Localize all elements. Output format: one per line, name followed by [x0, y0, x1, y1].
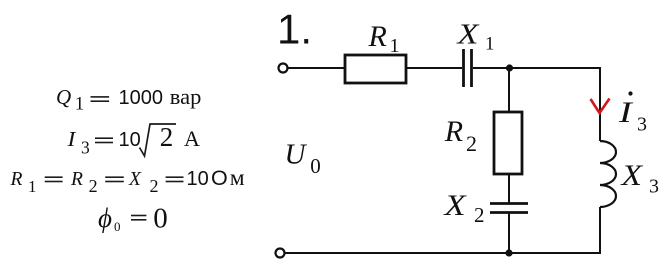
svg-text:X: X — [442, 188, 467, 221]
svg-text:1.: 1. — [277, 6, 312, 53]
given data line R1 = R2 = X2 = 10 Om — [10, 165, 245, 196]
radical sign of sqrt(2) — [140, 124, 177, 156]
svg-text:10: 10 — [187, 168, 209, 190]
svg-text:X: X — [128, 169, 142, 190]
svg-text:1: 1 — [28, 177, 37, 196]
svg-text:I: I — [66, 127, 77, 151]
svg-text:R: R — [10, 169, 23, 190]
svg-text:U: U — [285, 139, 308, 171]
svg-text:3: 3 — [637, 114, 647, 136]
current arrow I3 — [591, 99, 610, 114]
wire from R2 to X2 — [508, 174, 510, 203]
given data line phi0 = 0 — [98, 203, 168, 235]
svg-text:I: I — [618, 96, 634, 129]
svg-text:А: А — [184, 126, 200, 151]
given data line Q1 = 1000 var — [56, 84, 201, 115]
terminal bottom-left — [276, 249, 285, 258]
svg-text:0: 0 — [153, 203, 168, 235]
wire from X1 to top-right corner then down — [473, 68, 600, 141]
svg-text:10: 10 — [119, 129, 141, 151]
inductor X3 — [600, 141, 616, 207]
svg-text:X: X — [455, 18, 480, 50]
resistor R1 — [345, 55, 406, 83]
svg-text:R: R — [368, 20, 387, 53]
svg-text:2: 2 — [466, 131, 477, 156]
wire from X3 to bottom wire — [599, 207, 601, 252]
svg-text:вар: вар — [170, 84, 202, 109]
svg-text:2: 2 — [150, 176, 159, 196]
terminal top-left — [279, 64, 288, 73]
given data line I3 = 10*sqrt(2) A — [66, 122, 200, 158]
svg-text:1: 1 — [485, 34, 495, 55]
svg-text:3: 3 — [649, 176, 659, 198]
junction dot bottom — [505, 249, 512, 256]
svg-text:3: 3 — [81, 138, 90, 158]
svg-text:1: 1 — [75, 94, 85, 115]
svg-text:ϕ: ϕ — [98, 203, 112, 233]
wire middle branch from node A to R2 — [508, 68, 510, 112]
wire from X2 to bottom junction — [508, 213, 510, 253]
svg-text:м: м — [230, 165, 245, 191]
svg-text:X: X — [619, 159, 643, 192]
svg-text:2: 2 — [160, 122, 174, 152]
svg-text:2: 2 — [474, 203, 485, 227]
node A junction dot — [506, 64, 513, 71]
svg-text:Q: Q — [56, 85, 71, 109]
svg-text:2: 2 — [89, 176, 98, 196]
svg-text:0: 0 — [310, 154, 321, 178]
capacitor X2 — [490, 202, 528, 205]
svg-text:1000: 1000 — [119, 87, 164, 109]
wire bottom — [285, 252, 601, 254]
resistor R2 — [494, 112, 522, 174]
svg-text:1: 1 — [390, 35, 400, 57]
svg-text:R: R — [70, 169, 83, 190]
capacitor X1 — [462, 49, 465, 87]
svg-text:О: О — [211, 166, 228, 190]
svg-text:0: 0 — [114, 219, 121, 234]
wire top from terminal to R1 — [288, 67, 345, 69]
wire from R1 to X1 — [406, 67, 462, 69]
svg-text:R: R — [444, 115, 463, 148]
